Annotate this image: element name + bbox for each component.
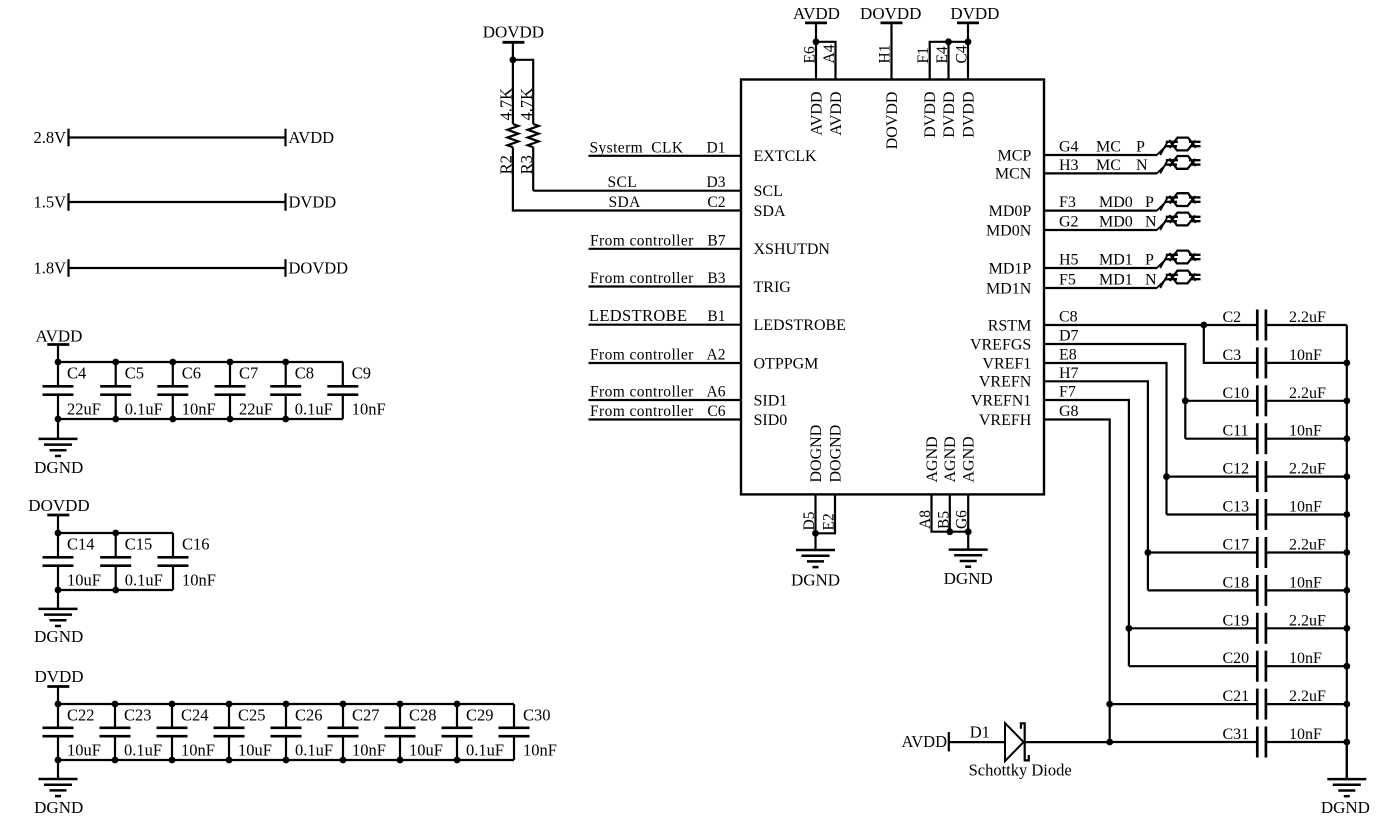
- wire pin C6: [589, 418, 742, 420]
- capacitor C31: [1257, 727, 1266, 758]
- label C17: [1223, 537, 1250, 554]
- svg-text:DVDD: DVDD: [922, 92, 939, 138]
- svg-text:G8: G8: [1059, 403, 1079, 420]
- pin name AGND: [961, 436, 978, 482]
- svg-text:B7: B7: [707, 232, 725, 249]
- pin number E4: [934, 46, 951, 63]
- capacitor C7: [215, 362, 246, 419]
- svg-text:VREFH: VREFH: [979, 412, 1032, 429]
- wire C17 to bus: [1266, 551, 1347, 553]
- junction: [1343, 360, 1350, 367]
- capacitor C21: [1257, 689, 1266, 720]
- value 10uF: [67, 740, 101, 759]
- pin name DVDD: [960, 92, 977, 138]
- pin number E2: [821, 513, 838, 530]
- wire C19 to bus: [1266, 627, 1347, 629]
- svg-text:AVDD: AVDD: [793, 4, 840, 23]
- svg-text:10nF: 10nF: [1289, 499, 1322, 516]
- power flag DOVDD: [483, 23, 544, 60]
- svg-text:F5: F5: [1059, 272, 1076, 289]
- svg-text:Schottky Diode: Schottky Diode: [969, 761, 1072, 780]
- wire C21 to bus: [1266, 703, 1347, 705]
- svg-text:DVDD: DVDD: [960, 92, 977, 138]
- wire C3 to bus: [1266, 362, 1347, 364]
- svg-text:DOVDD: DOVDD: [884, 92, 901, 150]
- label C24: [181, 706, 209, 725]
- svg-text:SID1: SID1: [754, 392, 788, 409]
- wire to C21: [1110, 703, 1258, 705]
- junction: [1343, 701, 1350, 708]
- capacitor C26: [271, 704, 302, 760]
- wire DVDD bottom bus: [58, 759, 514, 761]
- svg-text:A4: A4: [821, 44, 838, 63]
- pin name VREF1: [982, 355, 1031, 372]
- wire pin F7: [1044, 400, 1129, 666]
- pin number C8: [1059, 309, 1078, 326]
- net label MD1: [1099, 252, 1133, 269]
- junction: [55, 530, 62, 594]
- pin number F7: [1059, 384, 1076, 401]
- svg-text:C30: C30: [523, 706, 551, 725]
- svg-text:LEDSTROBE: LEDSTROBE: [589, 306, 687, 325]
- label C26: [295, 706, 323, 725]
- pin number E8: [1059, 347, 1077, 364]
- label C13: [1223, 499, 1250, 516]
- svg-text:MD0N: MD0N: [986, 222, 1032, 239]
- svg-text:N: N: [1145, 272, 1157, 289]
- wire pin E2: [816, 494, 836, 533]
- label C25: [238, 706, 266, 725]
- svg-text:C9: C9: [352, 364, 371, 383]
- junction: [454, 701, 461, 764]
- pin name AVDD: [808, 92, 825, 136]
- net label DVDD: [289, 192, 337, 211]
- svg-text:F7: F7: [1059, 384, 1076, 401]
- svg-text:H1: H1: [877, 45, 894, 64]
- pin name DOVDD: [884, 92, 901, 150]
- svg-text:2.2uF: 2.2uF: [1289, 385, 1326, 402]
- svg-text:VREFN1: VREFN1: [971, 392, 1031, 409]
- svg-text:10nF: 10nF: [1289, 423, 1322, 440]
- capacitor C3: [1257, 347, 1266, 378]
- value 10nF: [1289, 347, 1322, 364]
- net label P: [1136, 139, 1145, 156]
- junction: [1343, 625, 1350, 632]
- svg-text:MCP: MCP: [998, 147, 1032, 164]
- capacitor C9: [327, 362, 358, 419]
- svg-text:MD0P: MD0P: [989, 203, 1032, 220]
- svg-text:22uF: 22uF: [239, 399, 273, 418]
- junction: [1343, 435, 1350, 442]
- svg-text:C16: C16: [182, 535, 210, 554]
- pin number G6: [954, 510, 971, 529]
- svg-text:R3: R3: [517, 155, 536, 174]
- svg-text:From controller: From controller: [590, 384, 694, 401]
- wire pin D1: [589, 155, 742, 157]
- svg-text:DGND: DGND: [34, 458, 83, 477]
- junction: [282, 359, 289, 423]
- svg-text:DVDD: DVDD: [289, 192, 337, 211]
- junction: [112, 701, 119, 764]
- pin number C4: [954, 45, 971, 63]
- svg-text:E8: E8: [1059, 347, 1077, 364]
- off-page connector MCP: [1166, 138, 1201, 151]
- junction node DOVDD: [510, 56, 517, 63]
- svg-text:AVDD: AVDD: [901, 732, 947, 751]
- svg-text:MD1P: MD1P: [989, 260, 1032, 277]
- value 10nF: [1289, 574, 1322, 591]
- wire pin A4: [816, 42, 836, 80]
- svg-text:2.8V: 2.8V: [33, 128, 66, 147]
- svg-text:0.1uF: 0.1uF: [466, 740, 504, 759]
- power flag DVDD top: [950, 4, 999, 23]
- pin number F1: [915, 47, 932, 63]
- wire ground bus: [1346, 325, 1348, 779]
- value 0.1uF: [125, 570, 163, 589]
- label R3: [517, 155, 536, 174]
- net label CLK: [651, 139, 684, 156]
- pin name AGND: [942, 436, 959, 482]
- label C21: [1223, 688, 1250, 705]
- junction: [1145, 549, 1152, 556]
- svg-text:From controller: From controller: [590, 403, 694, 420]
- svg-text:G4: G4: [1059, 139, 1079, 156]
- svg-text:VREFN: VREFN: [979, 374, 1032, 391]
- power flag AVDD: [36, 326, 83, 362]
- svg-text:DGND: DGND: [944, 569, 993, 588]
- capacitor C18: [1257, 575, 1266, 606]
- pin name DOGND: [827, 425, 844, 483]
- off-page connector MD0N: [1166, 213, 1201, 226]
- wire DOVDD bottom bus: [58, 589, 173, 591]
- svg-text:10uF: 10uF: [238, 740, 272, 759]
- capacitor C2: [1257, 310, 1266, 341]
- off-page connector MCN: [1166, 156, 1201, 169]
- svg-text:C4: C4: [67, 364, 86, 383]
- net label MD0: [1099, 214, 1133, 231]
- label C28: [409, 706, 437, 725]
- svg-text:C18: C18: [1223, 574, 1250, 591]
- pin name MD0N: [986, 222, 1032, 239]
- wire pin B7: [589, 248, 742, 250]
- wire to C13: [1167, 513, 1258, 515]
- svg-text:D7: D7: [1059, 328, 1079, 345]
- capacitor C6: [157, 362, 188, 419]
- wire to C31: [1110, 741, 1258, 743]
- svg-text:C8: C8: [1059, 309, 1078, 326]
- wire pin C2 SDA: [513, 147, 741, 210]
- label C3: [1223, 347, 1242, 364]
- svg-text:0.1uF: 0.1uF: [124, 740, 162, 759]
- pin number A4: [821, 44, 838, 63]
- svg-text:C22: C22: [67, 706, 95, 725]
- svg-text:DVDD: DVDD: [950, 4, 999, 23]
- pin number F5: [1059, 272, 1076, 289]
- label Schottky Diode: [969, 761, 1072, 780]
- pin number B3: [707, 270, 725, 287]
- value 2.2uF: [1289, 309, 1326, 326]
- ground DGND under AGND: [949, 532, 988, 567]
- pin name SCL: [754, 183, 783, 200]
- pin name VREFH: [979, 412, 1032, 429]
- wire pin A6: [589, 399, 742, 401]
- pin name MD0P: [989, 203, 1032, 220]
- net label 1.8V: [33, 258, 66, 277]
- svg-text:C29: C29: [466, 706, 494, 725]
- label C27: [352, 706, 380, 725]
- wire to C11: [1185, 438, 1257, 440]
- svg-text:C13: C13: [1223, 499, 1250, 516]
- net label Systerm: [590, 139, 644, 156]
- net label P: [1145, 194, 1154, 211]
- svg-text:AVDD: AVDD: [36, 326, 83, 345]
- pin name DVDD: [941, 92, 958, 138]
- capacitor C28: [385, 704, 416, 760]
- value 4.7K R2: [497, 88, 516, 121]
- junction: [1343, 663, 1350, 670]
- value 4.7K R3: [517, 88, 536, 121]
- svg-text:10nF: 10nF: [182, 399, 216, 418]
- svg-text:VREF1: VREF1: [982, 355, 1031, 372]
- svg-text:2.2uF: 2.2uF: [1289, 461, 1326, 478]
- value 10nF: [1289, 650, 1322, 667]
- ground DGND: [39, 590, 78, 626]
- pin name SID1: [754, 392, 788, 409]
- value 2.2uF: [1289, 537, 1326, 554]
- pin name AVDD: [828, 92, 845, 136]
- net label N: [1145, 272, 1157, 289]
- svg-text:C3: C3: [1223, 347, 1242, 364]
- svg-text:A2: A2: [707, 347, 726, 364]
- pin number B7: [707, 232, 725, 249]
- capacitor C12: [1257, 461, 1266, 492]
- wire branch F1 E4: [930, 42, 968, 80]
- pin number D3: [707, 174, 726, 191]
- svg-text:TRIG: TRIG: [754, 279, 792, 296]
- wire 1.8V to DOVDD: [69, 259, 286, 277]
- junction: [397, 701, 404, 764]
- wire pin A2: [589, 362, 742, 364]
- off-page connector MD1P: [1166, 251, 1201, 264]
- svg-text:10nF: 10nF: [523, 740, 557, 759]
- net label N: [1136, 157, 1148, 174]
- pin name MD1N: [986, 280, 1032, 297]
- net label MC: [1096, 157, 1121, 174]
- svg-text:DOVDD: DOVDD: [483, 23, 544, 42]
- net label From controller: [590, 270, 694, 287]
- svg-text:C15: C15: [125, 535, 153, 554]
- svg-text:C31: C31: [1223, 726, 1250, 743]
- net label SDA: [609, 194, 642, 211]
- net label DGND: [34, 458, 83, 477]
- junction: [946, 528, 971, 535]
- capacitor C25: [214, 704, 245, 760]
- value 22uF: [67, 399, 101, 418]
- svg-text:A8: A8: [917, 510, 934, 529]
- junction: [1182, 397, 1189, 404]
- svg-text:AVDD: AVDD: [289, 128, 335, 147]
- wire 2.8V to AVDD: [69, 129, 286, 147]
- power flag DVDD: [34, 667, 83, 704]
- wire pin D5: [814, 494, 816, 533]
- svg-text:10nF: 10nF: [182, 570, 216, 589]
- junction: [169, 701, 176, 764]
- off-page connector MD1N: [1166, 271, 1201, 284]
- wire pin E6: [815, 23, 817, 80]
- label C7: [239, 364, 258, 383]
- svg-text:C10: C10: [1223, 385, 1250, 402]
- svg-text:H5: H5: [1059, 252, 1079, 269]
- svg-text:XSHUTDN: XSHUTDN: [754, 241, 831, 258]
- svg-text:0.1uF: 0.1uF: [295, 740, 333, 759]
- value 2.2uF: [1289, 612, 1326, 629]
- svg-text:N: N: [1136, 157, 1148, 174]
- pin number A6: [707, 384, 726, 401]
- capacitor C29: [442, 704, 473, 760]
- svg-text:C19: C19: [1223, 612, 1250, 629]
- svg-text:G6: G6: [954, 510, 971, 529]
- svg-text:10nF: 10nF: [1289, 650, 1322, 667]
- wire AVDD bottom bus: [58, 418, 343, 420]
- wire pin D7: [1044, 344, 1185, 439]
- pin name VREFGS: [970, 336, 1031, 353]
- junction: [169, 359, 176, 423]
- svg-text:B5: B5: [935, 511, 952, 529]
- junction: [812, 530, 819, 537]
- svg-text:DGND: DGND: [34, 798, 83, 817]
- pin name SID0: [754, 412, 788, 429]
- wire to C19: [1129, 627, 1257, 629]
- svg-text:P: P: [1145, 252, 1154, 269]
- junction: [945, 38, 971, 45]
- wire DOVDD top bus: [58, 532, 173, 534]
- junction: [1343, 587, 1350, 594]
- svg-text:Systerm: Systerm: [590, 139, 644, 156]
- junction: [1343, 511, 1350, 518]
- wire C18 to bus: [1266, 589, 1347, 591]
- svg-text:F1: F1: [915, 47, 932, 63]
- pin number G2: [1059, 214, 1079, 231]
- wire AVDD top bus: [58, 361, 343, 363]
- capacitor C5: [100, 362, 131, 419]
- net label 1.5V: [33, 192, 66, 211]
- value 10nF: [181, 740, 215, 759]
- junction: [1106, 701, 1113, 746]
- net label From controller: [590, 232, 694, 249]
- capacitor C24: [157, 704, 188, 760]
- svg-text:AVDD: AVDD: [828, 92, 845, 136]
- wire C31 to bus: [1266, 741, 1347, 743]
- value 10nF: [1289, 423, 1322, 440]
- value 10nF: [523, 740, 557, 759]
- svg-text:MC: MC: [1096, 157, 1121, 174]
- label C2: [1223, 309, 1242, 326]
- svg-text:EXTCLK: EXTCLK: [754, 148, 818, 165]
- capacitor C23: [100, 704, 131, 760]
- svg-text:LEDSTROBE: LEDSTROBE: [754, 317, 846, 334]
- pin name MCP: [998, 147, 1032, 164]
- ground DGND bus: [1327, 742, 1366, 796]
- value 2.2uF: [1289, 385, 1326, 402]
- pin name SDA: [754, 203, 786, 220]
- wire C8 to C3: [1204, 325, 1258, 363]
- svg-text:P: P: [1145, 194, 1154, 211]
- label C5: [125, 364, 144, 383]
- svg-text:C11: C11: [1223, 423, 1249, 440]
- value 2.2uF: [1289, 461, 1326, 478]
- svg-text:22uF: 22uF: [67, 399, 101, 418]
- wire C20 to bus: [1266, 665, 1347, 667]
- label C31: [1223, 726, 1250, 743]
- value 10nF: [182, 570, 216, 589]
- svg-text:DVDD: DVDD: [941, 92, 958, 138]
- net label SCL: [608, 174, 638, 191]
- svg-text:D5: D5: [801, 511, 818, 530]
- pin name LEDSTROBE: [754, 317, 846, 334]
- svg-text:C6: C6: [182, 364, 201, 383]
- svg-text:MD1: MD1: [1099, 272, 1133, 289]
- junction: [1343, 549, 1350, 556]
- junction: [1343, 397, 1350, 404]
- svg-text:C5: C5: [125, 364, 144, 383]
- svg-text:From controller: From controller: [590, 232, 694, 249]
- junction: [283, 701, 290, 764]
- junction: [1200, 322, 1207, 329]
- wire pin H7: [1044, 381, 1148, 590]
- svg-text:E6: E6: [802, 46, 819, 63]
- power flag AVDD top: [793, 4, 840, 23]
- wire pin C8 RSTM: [1044, 324, 1257, 326]
- svg-text:DOVDD: DOVDD: [28, 496, 89, 515]
- svg-text:C2: C2: [707, 194, 725, 211]
- svg-text:C27: C27: [352, 706, 380, 725]
- svg-text:VREFGS: VREFGS: [970, 336, 1031, 353]
- svg-text:DGND: DGND: [34, 627, 83, 646]
- svg-text:C4: C4: [954, 45, 971, 63]
- label C9: [352, 364, 371, 383]
- value 10nF: [352, 399, 386, 418]
- svg-text:MD0: MD0: [1099, 214, 1133, 231]
- svg-text:H3: H3: [1059, 157, 1079, 174]
- svg-text:DOVDD: DOVDD: [860, 4, 921, 23]
- svg-text:D1: D1: [970, 722, 990, 741]
- svg-text:C6: C6: [707, 403, 725, 420]
- svg-text:MD1N: MD1N: [986, 280, 1032, 297]
- net label DGND: [944, 569, 993, 588]
- capacitor C13: [1257, 499, 1266, 530]
- svg-text:DOGND: DOGND: [827, 425, 844, 483]
- svg-text:F3: F3: [1059, 194, 1076, 211]
- label D1: [970, 722, 990, 741]
- value 10nF: [352, 740, 386, 759]
- svg-text:G2: G2: [1059, 214, 1079, 231]
- junction: [1126, 625, 1133, 632]
- svg-text:H7: H7: [1059, 365, 1079, 382]
- wire pin G6: [967, 494, 969, 531]
- svg-text:D1: D1: [707, 139, 726, 156]
- pin name DOGND: [808, 425, 825, 483]
- svg-text:N: N: [1145, 214, 1157, 231]
- label C19: [1223, 612, 1250, 629]
- svg-text:SCL: SCL: [754, 183, 783, 200]
- capacitor C27: [328, 704, 359, 760]
- wire pin G8: [1044, 420, 1110, 743]
- pin number A2: [707, 347, 726, 364]
- svg-text:C28: C28: [409, 706, 437, 725]
- value 10nF: [182, 399, 216, 418]
- pin number H7: [1059, 365, 1079, 382]
- pin number H5: [1059, 252, 1079, 269]
